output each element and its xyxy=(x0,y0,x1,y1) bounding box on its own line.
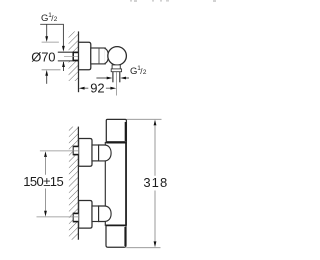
extension lines xyxy=(42,41,59,43)
union 1: nut xyxy=(92,145,99,161)
svg-text:92: 92 xyxy=(90,81,104,96)
faint cropped text remnants at top edge xyxy=(130,0,216,2)
body main column xyxy=(105,143,126,226)
G 1/2 label (top-left) xyxy=(41,12,58,24)
svg-text:150±15: 150±15 xyxy=(23,174,63,189)
body rounded end arc xyxy=(105,48,109,64)
lower arrow xyxy=(45,70,48,76)
supply pipe stub behind wall (union 1) xyxy=(73,146,79,155)
svg-text:318: 318 xyxy=(143,175,168,190)
union 2: nut xyxy=(92,206,99,222)
body top cap xyxy=(106,119,126,141)
arrow up to pipe bottom xyxy=(62,61,65,71)
valve body (top view) xyxy=(91,48,105,64)
upper arrow xyxy=(46,24,48,37)
leader from top G1/2 xyxy=(40,24,63,46)
92 dimension xyxy=(79,81,116,96)
wall line (top view) xyxy=(78,31,80,92)
joint line below top cap xyxy=(106,142,126,144)
knob circle (top view) xyxy=(108,47,127,66)
wall line (side view) xyxy=(77,127,79,240)
svg-text:Ø70: Ø70 xyxy=(31,50,55,65)
tube centerline / extension xyxy=(116,72,118,96)
top cap thick right edge xyxy=(125,122,127,141)
svg-text:2: 2 xyxy=(143,69,147,76)
arrow down to pipe top xyxy=(62,46,65,52)
union 2: cone xyxy=(99,206,112,222)
svg-text:G: G xyxy=(130,66,137,77)
Ø70 dimension xyxy=(31,24,60,84)
svg-text:2: 2 xyxy=(54,16,58,23)
150±15 dimension xyxy=(23,151,79,217)
union fitting box behind wall xyxy=(73,52,79,61)
318 dimension xyxy=(126,119,168,247)
column thick right edge xyxy=(125,143,127,226)
body bottom cap xyxy=(106,225,126,247)
supply pipe behind wall (top view) xyxy=(58,52,79,61)
union 1: cone xyxy=(99,145,112,161)
outlet ring xyxy=(111,69,121,72)
leader arrows at outlet tube xyxy=(96,77,129,80)
bottom cap thick right edge xyxy=(124,227,126,246)
G 1/2 label (right of outlet) xyxy=(130,65,147,77)
outlet tube walls xyxy=(112,72,114,83)
wall hatching (top view) xyxy=(69,31,79,81)
outlet neck below knob xyxy=(112,65,120,69)
supply pipe stub behind wall (union 2) xyxy=(73,213,79,222)
union 2: escutcheon xyxy=(79,201,92,229)
union 1: escutcheon xyxy=(79,139,92,167)
wall hatching (side view) xyxy=(69,127,79,240)
bottom cap joint line xyxy=(106,224,126,226)
flange Ø70 (top view) xyxy=(79,42,91,70)
body segment line xyxy=(98,48,100,64)
pipe centerline xyxy=(64,56,78,58)
